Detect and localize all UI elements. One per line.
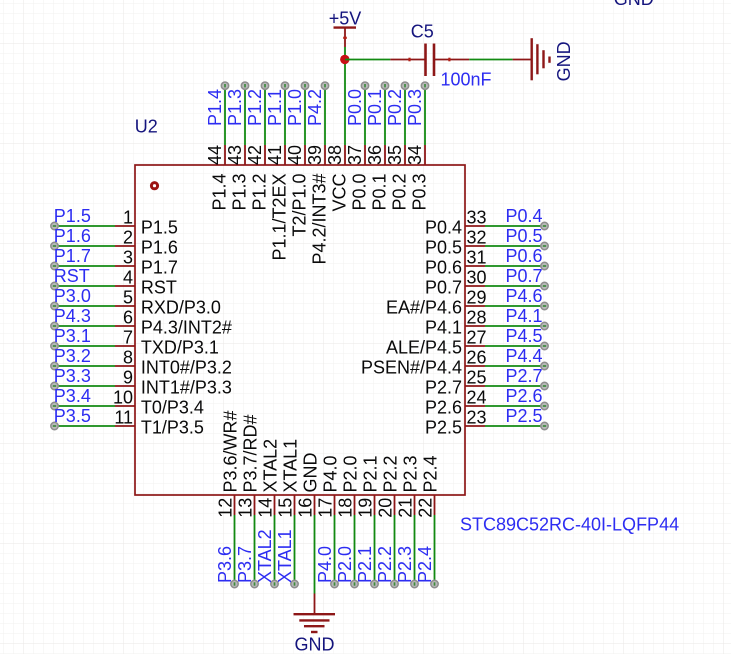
pad / port P1.4 <box>221 82 228 89</box>
svg-text:P2.0: P2.0 <box>335 546 355 583</box>
wire net P1.2 (top) <box>264 86 266 145</box>
pin 17 lead (P4.0) <box>334 495 336 515</box>
pad / port P1.3 <box>241 82 248 89</box>
pad / port P2.3 <box>411 580 418 587</box>
svg-text:P2.5: P2.5 <box>425 418 462 438</box>
svg-text:P0.5: P0.5 <box>505 226 542 246</box>
svg-text:C5: C5 <box>411 22 434 42</box>
svg-text:P1.7: P1.7 <box>54 246 91 266</box>
pin 6 lead (P4.3/INT2#) <box>115 325 135 327</box>
wire net VCC: pin 38 up to junction <box>344 60 346 146</box>
svg-text:P1.7: P1.7 <box>141 258 178 278</box>
pin 41 lead (P1.1/T2EX) <box>284 145 286 165</box>
svg-text:P3.6/WR#: P3.6/WR# <box>221 410 241 492</box>
pad / port P2.1 <box>371 580 378 587</box>
svg-text:37: 37 <box>345 145 365 165</box>
pad / port P3.6 <box>231 580 238 587</box>
pad / port P1.2 <box>261 82 268 89</box>
svg-text:41: 41 <box>265 145 285 165</box>
wire net P1.0 (top) <box>304 86 306 145</box>
svg-text:25: 25 <box>467 368 487 388</box>
svg-text:P4.1: P4.1 <box>505 306 542 326</box>
svg-text:24: 24 <box>467 388 487 408</box>
svg-text:RST: RST <box>54 266 90 286</box>
svg-text:P4.0: P4.0 <box>315 546 335 583</box>
svg-text:P4.2: P4.2 <box>305 89 325 126</box>
svg-text:40: 40 <box>285 145 305 165</box>
svg-text:ALE/P4.5: ALE/P4.5 <box>386 338 462 358</box>
pin 1 lead (P1.5) <box>115 225 135 227</box>
wire net P2.3 (bottom) <box>414 515 416 584</box>
svg-text:P2.0: P2.0 <box>341 455 361 492</box>
svg-text:XTAL1: XTAL1 <box>275 529 295 583</box>
pin 18 lead (P2.0) <box>354 495 356 515</box>
svg-text:39: 39 <box>305 145 325 165</box>
wire net P4.4 (right) <box>485 365 545 367</box>
pin 31 lead (P0.6) <box>465 265 485 267</box>
svg-text:P2.5: P2.5 <box>505 406 542 426</box>
wire net P3.4 (left) <box>55 405 116 407</box>
pad / port P2.4 <box>431 580 438 587</box>
IC U2 pin-1 marker circle <box>151 183 157 189</box>
svg-text:P2.4: P2.4 <box>421 455 441 492</box>
svg-text:P0.7: P0.7 <box>425 278 462 298</box>
pin 42 lead (P1.2) <box>264 145 266 165</box>
svg-text:15: 15 <box>276 498 296 518</box>
svg-text:P0.3: P0.3 <box>405 89 425 126</box>
pin 14 lead (XTAL2) <box>274 495 276 515</box>
svg-text:P0.4: P0.4 <box>505 206 542 226</box>
svg-text:P1.3: P1.3 <box>230 174 250 211</box>
svg-text:P1.6: P1.6 <box>141 238 178 258</box>
pad / port P0.6 <box>541 262 548 269</box>
wire net GND: pin 16 down <box>314 515 316 594</box>
pin 16 lead (GND) <box>314 495 316 515</box>
pad / port P0.1 <box>381 82 388 89</box>
pin 20 lead (P2.2) <box>394 495 396 515</box>
wire net P0.5 (right) <box>485 245 545 247</box>
pad / port P3.2 <box>51 362 58 369</box>
pin 34 lead (P0.3) <box>424 145 426 165</box>
+5V supply symbol <box>334 28 357 47</box>
wire net P0.1 (top) <box>384 86 386 145</box>
wire net P1.1 (top) <box>284 86 286 145</box>
pad / port P3.0 <box>51 302 58 309</box>
svg-text:P3.6: P3.6 <box>215 546 235 583</box>
pad / port P3.1 <box>51 342 58 349</box>
svg-text:P2.7: P2.7 <box>425 378 462 398</box>
svg-text:P4.1: P4.1 <box>425 318 462 338</box>
svg-text:P0.2: P0.2 <box>385 89 405 126</box>
svg-text:P1.2: P1.2 <box>245 89 265 126</box>
wire net P3.7 (bottom) <box>254 515 256 584</box>
wire net P3.6 (bottom) <box>234 515 236 584</box>
pad / port RST <box>51 282 58 289</box>
pad / port P2.5 <box>541 422 548 429</box>
wire net P1.4 (top) <box>224 86 226 145</box>
svg-text:32: 32 <box>467 228 487 248</box>
svg-text:33: 33 <box>467 208 487 228</box>
svg-text:STC89C52RC-40I-LQFP44: STC89C52RC-40I-LQFP44 <box>460 515 679 535</box>
svg-text:6: 6 <box>123 308 133 328</box>
wire net P0.6 (right) <box>485 265 545 267</box>
svg-text:P1.4: P1.4 <box>205 89 225 126</box>
wire net P0.7 (right) <box>485 285 545 287</box>
svg-text:P2.2: P2.2 <box>375 546 395 583</box>
IC U2 body (STC89C52RC-40I-LQFP44) <box>135 165 465 495</box>
pad / port P2.7 <box>541 382 548 389</box>
svg-text:P4.6: P4.6 <box>505 286 542 306</box>
svg-text:VCC: VCC <box>330 174 350 212</box>
svg-text:T0/P3.4: T0/P3.4 <box>141 398 204 418</box>
svg-text:P2.6: P2.6 <box>505 386 542 406</box>
svg-text:P3.3: P3.3 <box>54 366 91 386</box>
svg-text:35: 35 <box>385 145 405 165</box>
wire net P3.0 (left) <box>55 305 116 307</box>
wire net VCC: junction to C5 <box>345 59 390 61</box>
svg-text:INT1#/P3.3: INT1#/P3.3 <box>141 378 232 398</box>
wire net P3.2 (left) <box>55 365 116 367</box>
pad / port P0.2 <box>401 82 408 89</box>
svg-text:P0.2: P0.2 <box>390 174 410 211</box>
wire net P0.0 (top) <box>364 86 366 145</box>
pin 39 lead (P4.2/INT3#) <box>324 145 326 165</box>
svg-text:P4.4: P4.4 <box>505 346 542 366</box>
pin 24 lead (P2.6) <box>465 405 485 407</box>
pad / port P4.5 <box>541 342 548 349</box>
pin 5 lead (RXD/P3.0) <box>115 305 135 307</box>
svg-text:TXD/P3.1: TXD/P3.1 <box>141 338 219 358</box>
svg-text:19: 19 <box>356 498 376 518</box>
wire net P3.3 (left) <box>55 385 116 387</box>
pad / port P1.1 <box>281 82 288 89</box>
capacitor C5 left lead <box>390 58 425 62</box>
svg-text:P3.7/RD#: P3.7/RD# <box>241 414 261 492</box>
pin 12 lead (P3.6/WR#) <box>234 495 236 515</box>
svg-text:3: 3 <box>123 248 133 268</box>
wire net P2.1 (bottom) <box>374 515 376 584</box>
svg-text:1: 1 <box>123 208 133 228</box>
svg-text:2: 2 <box>123 228 133 248</box>
pad / port P2.0 <box>351 580 358 587</box>
wire net P4.2 (top) <box>324 86 326 145</box>
wire net P2.5 (right) <box>485 425 545 427</box>
pin 35 lead (P0.2) <box>404 145 406 165</box>
svg-text:GND: GND <box>301 453 321 493</box>
svg-text:P1.6: P1.6 <box>54 226 91 246</box>
svg-text:P2.7: P2.7 <box>505 366 542 386</box>
wire net XTAL1 (bottom) <box>294 515 296 584</box>
pin 3 lead (P1.7) <box>115 265 135 267</box>
svg-text:RST: RST <box>141 278 177 298</box>
pin 44 lead (P1.4) <box>224 145 226 165</box>
svg-text:P2.3: P2.3 <box>395 546 415 583</box>
svg-text:100nF: 100nF <box>441 70 492 90</box>
wire net P4.0 (bottom) <box>334 515 336 584</box>
svg-text:P4.3/INT2#: P4.3/INT2# <box>141 318 232 338</box>
svg-text:P1.5: P1.5 <box>54 206 91 226</box>
svg-text:P1.3: P1.3 <box>225 89 245 126</box>
svg-text:20: 20 <box>376 498 396 518</box>
svg-text:U2: U2 <box>135 117 158 137</box>
svg-text:18: 18 <box>336 498 356 518</box>
pin 26 lead (PSEN#/P4.4) <box>465 365 485 367</box>
svg-text:12: 12 <box>216 498 236 518</box>
svg-text:28: 28 <box>467 308 487 328</box>
svg-text:P1.5: P1.5 <box>141 218 178 238</box>
svg-text:GND: GND <box>554 41 574 81</box>
pin 29 lead (EA#/P4.6) <box>465 305 485 307</box>
svg-text:PSEN#/P4.4: PSEN#/P4.4 <box>361 358 462 378</box>
svg-text:EA#/P4.6: EA#/P4.6 <box>386 298 462 318</box>
wire net GND: C5 to ground <box>469 59 512 61</box>
wire net P4.1 (right) <box>485 325 545 327</box>
svg-text:43: 43 <box>225 145 245 165</box>
svg-text:P4.5: P4.5 <box>505 326 542 346</box>
svg-text:XTAL1: XTAL1 <box>281 439 301 493</box>
svg-text:42: 42 <box>245 145 265 165</box>
pin 32 lead (P0.5) <box>465 245 485 247</box>
svg-text:21: 21 <box>396 498 416 518</box>
svg-text:P1.4: P1.4 <box>210 174 230 211</box>
svg-text:P0.0: P0.0 <box>345 89 365 126</box>
pad / port P2.6 <box>541 402 548 409</box>
pad / port P0.5 <box>541 242 548 249</box>
svg-text:XTAL2: XTAL2 <box>261 439 281 493</box>
svg-text:T1/P3.5: T1/P3.5 <box>141 418 204 438</box>
svg-text:P0.6: P0.6 <box>425 258 462 278</box>
svg-text:GND: GND <box>614 0 654 9</box>
svg-text:22: 22 <box>416 498 436 518</box>
pad / port P4.3 <box>51 322 58 329</box>
pad / port P1.6 <box>51 242 58 249</box>
svg-text:30: 30 <box>467 268 487 288</box>
pad / port P4.4 <box>541 362 548 369</box>
pin 7 lead (TXD/P3.1) <box>115 345 135 347</box>
pin 22 lead (P2.4) <box>434 495 436 515</box>
wire net P3.1 (left) <box>55 345 116 347</box>
svg-text:P2.4: P2.4 <box>415 546 435 583</box>
pin 43 lead (P1.3) <box>244 145 246 165</box>
svg-text:P2.1: P2.1 <box>361 455 381 492</box>
svg-text:P0.1: P0.1 <box>365 89 385 126</box>
svg-text:27: 27 <box>467 328 487 348</box>
svg-text:34: 34 <box>405 145 425 165</box>
svg-text:29: 29 <box>467 288 487 308</box>
svg-text:P0.3: P0.3 <box>410 174 430 211</box>
pin 25 lead (P2.7) <box>465 385 485 387</box>
wire net P4.5 (right) <box>485 345 545 347</box>
wire net P2.7 (right) <box>485 385 545 387</box>
pad / port P3.3 <box>51 382 58 389</box>
pad / port XTAL1 <box>291 580 298 587</box>
wire net P2.2 (bottom) <box>394 515 396 584</box>
svg-text:8: 8 <box>123 348 133 368</box>
svg-text:P2.1: P2.1 <box>355 546 375 583</box>
pad / port P4.2 <box>321 82 328 89</box>
pin 4 lead (RST) <box>115 285 135 287</box>
svg-text:P4.0: P4.0 <box>321 455 341 492</box>
pin 40 lead (T2/P1.0) <box>304 145 306 165</box>
pin 28 lead (P4.1) <box>465 325 485 327</box>
pad / port P0.7 <box>541 282 548 289</box>
pin 38 lead (VCC) <box>344 145 346 165</box>
svg-text:P0.4: P0.4 <box>425 218 462 238</box>
svg-text:36: 36 <box>365 145 385 165</box>
wire net P0.3 (top) <box>424 86 426 145</box>
wire net P2.0 (bottom) <box>354 515 356 584</box>
svg-text:P0.6: P0.6 <box>505 246 542 266</box>
svg-text:P0.1: P0.1 <box>370 174 390 211</box>
pin 27 lead (ALE/P4.5) <box>465 345 485 347</box>
svg-text:P2.6: P2.6 <box>425 398 462 418</box>
svg-text:P1.1: P1.1 <box>265 89 285 126</box>
pin 11 lead (T1/P3.5) <box>115 425 135 427</box>
wire net P4.3 (left) <box>55 325 116 327</box>
pin 9 lead (INT1#/P3.3) <box>115 385 135 387</box>
svg-text:+5V: +5V <box>329 8 362 28</box>
svg-text:P0.0: P0.0 <box>350 174 370 211</box>
svg-text:P3.1: P3.1 <box>54 326 91 346</box>
wire net XTAL2 (bottom) <box>274 515 276 584</box>
wire net P1.5 (left) <box>55 225 116 227</box>
pin 36 lead (P0.1) <box>384 145 386 165</box>
svg-text:P3.0: P3.0 <box>54 286 91 306</box>
svg-text:INT0#/P3.2: INT0#/P3.2 <box>141 358 232 378</box>
svg-text:P0.7: P0.7 <box>505 266 542 286</box>
pad / port P3.5 <box>51 422 58 429</box>
+5V symbol stem wire <box>344 47 346 60</box>
svg-text:23: 23 <box>467 408 487 428</box>
svg-text:14: 14 <box>256 498 276 518</box>
svg-text:T2/P1.0: T2/P1.0 <box>290 174 310 237</box>
ground symbol (bottom) <box>294 594 336 633</box>
svg-text:P1.2: P1.2 <box>250 174 270 211</box>
pad / port P0.3 <box>421 82 428 89</box>
pad / port P4.1 <box>541 322 548 329</box>
svg-text:P3.7: P3.7 <box>235 546 255 583</box>
pad / port P3.7 <box>251 580 258 587</box>
pad / port P0.0 <box>361 82 368 89</box>
svg-text:10: 10 <box>113 388 133 408</box>
svg-text:31: 31 <box>467 248 487 268</box>
svg-text:11: 11 <box>114 408 133 428</box>
svg-text:13: 13 <box>236 498 256 518</box>
svg-text:P2.3: P2.3 <box>401 455 421 492</box>
pad / port P1.5 <box>51 222 58 229</box>
pin 19 lead (P2.1) <box>374 495 376 515</box>
pad / port P0.4 <box>541 222 548 229</box>
svg-text:P3.2: P3.2 <box>54 346 91 366</box>
pin 8 lead (INT0#/P3.2) <box>115 365 135 367</box>
svg-text:P3.4: P3.4 <box>54 386 91 406</box>
wire net P2.6 (right) <box>485 405 545 407</box>
wire net P1.6 (left) <box>55 245 116 247</box>
wire net P1.3 (top) <box>244 86 246 145</box>
svg-text:17: 17 <box>316 498 336 518</box>
svg-text:P1.1/T2EX: P1.1/T2EX <box>270 174 290 261</box>
pad / port P1.7 <box>51 262 58 269</box>
svg-text:38: 38 <box>325 145 345 165</box>
pad / port P1.0 <box>301 82 308 89</box>
svg-text:P4.2/INT3#: P4.2/INT3# <box>310 174 330 265</box>
svg-text:P4.3: P4.3 <box>54 306 91 326</box>
pin 15 lead (XTAL1) <box>294 495 296 515</box>
wire net P2.4 (bottom) <box>434 515 436 584</box>
svg-text:P0.5: P0.5 <box>425 238 462 258</box>
pin 21 lead (P2.3) <box>414 495 416 515</box>
pad / port P3.4 <box>51 402 58 409</box>
wire junction node VCC <box>340 55 349 64</box>
wire net P0.4 (right) <box>485 225 545 227</box>
wire net P1.7 (left) <box>55 265 116 267</box>
capacitor C5 right lead <box>434 58 469 62</box>
svg-text:7: 7 <box>123 328 133 348</box>
pad / port P4.6 <box>541 302 548 309</box>
ground symbol (right of C5) <box>513 38 550 80</box>
svg-text:P2.2: P2.2 <box>381 455 401 492</box>
svg-text:XTAL2: XTAL2 <box>255 529 275 583</box>
svg-text:9: 9 <box>123 368 133 388</box>
svg-text:P3.5: P3.5 <box>54 406 91 426</box>
svg-text:4: 4 <box>123 268 133 288</box>
pin 33 lead (P0.4) <box>465 225 485 227</box>
pin 23 lead (P2.5) <box>465 425 485 427</box>
svg-text:GND: GND <box>295 634 335 654</box>
wire net P3.5 (left) <box>55 425 116 427</box>
svg-text:16: 16 <box>296 498 316 518</box>
wire net P4.6 (right) <box>485 305 545 307</box>
pin 2 lead (P1.6) <box>115 245 135 247</box>
pad / port XTAL2 <box>271 580 278 587</box>
pin 10 lead (T0/P3.4) <box>115 405 135 407</box>
svg-text:26: 26 <box>467 348 487 368</box>
pin 30 lead (P0.7) <box>465 285 485 287</box>
svg-text:44: 44 <box>205 145 225 165</box>
wire net P0.2 (top) <box>404 86 406 145</box>
pin 37 lead (P0.0) <box>364 145 366 165</box>
pad / port P4.0 <box>331 580 338 587</box>
wire net RST (left) <box>55 285 116 287</box>
pad / port P2.2 <box>391 580 398 587</box>
svg-text:P1.0: P1.0 <box>285 89 305 126</box>
svg-text:RXD/P3.0: RXD/P3.0 <box>141 298 221 318</box>
pin 13 lead (P3.7/RD#) <box>254 495 256 515</box>
svg-text:5: 5 <box>123 288 133 308</box>
capacitor C5 plates <box>426 44 435 77</box>
